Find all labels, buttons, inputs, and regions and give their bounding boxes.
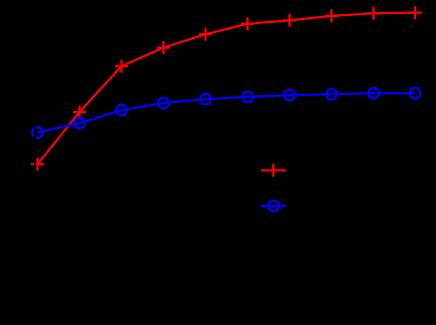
blue curve line (38, 93, 416, 132)
legend red sample: line + plus marker (261, 164, 286, 177)
legend blue sample: line + circle marker (261, 205, 286, 207)
blue circle markers (32, 88, 420, 138)
black left axis border drawn over curves (creates notches) (34, 0, 36, 286)
red curve line (38, 13, 416, 165)
red + markers (31, 6, 422, 171)
